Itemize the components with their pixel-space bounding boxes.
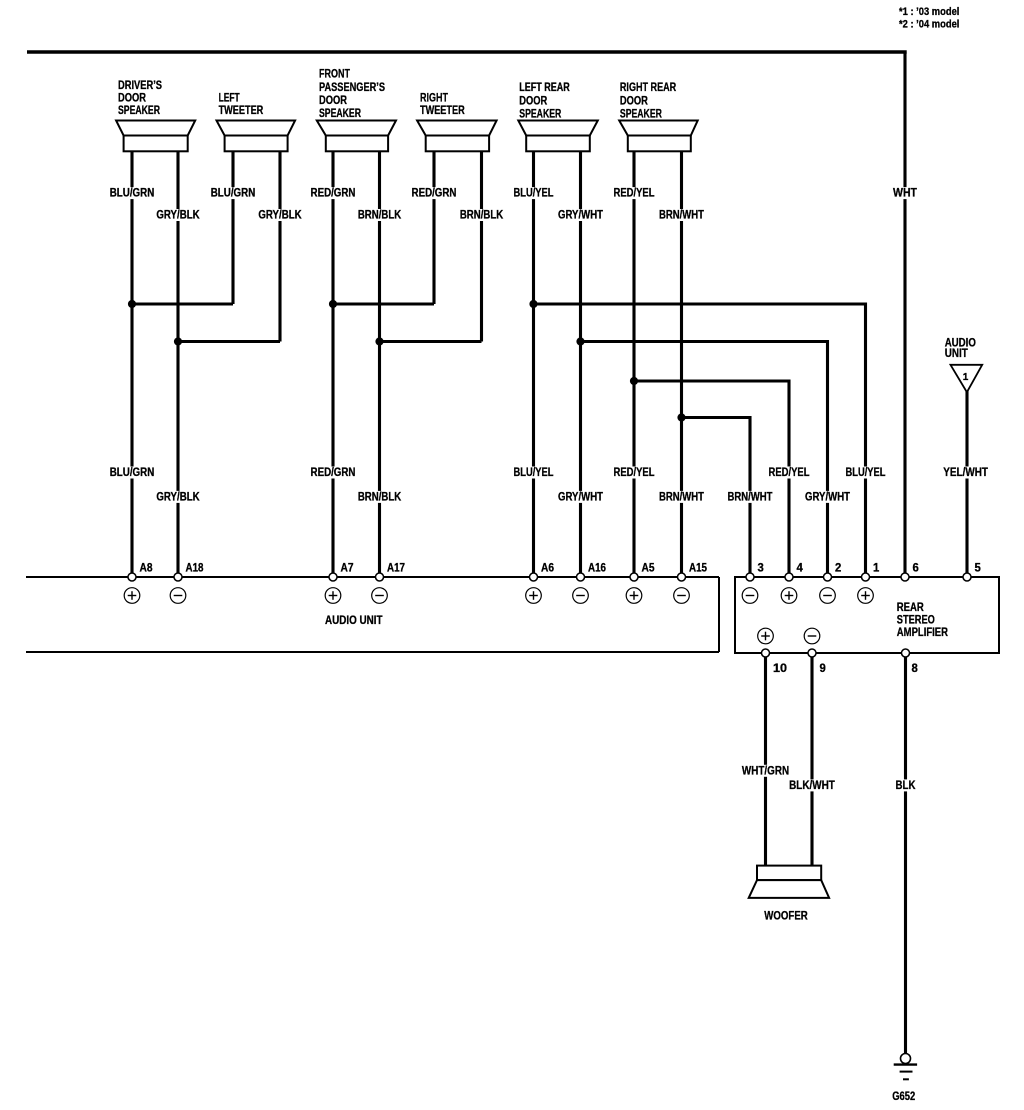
svg-text:A16: A16 <box>588 563 606 575</box>
svg-text:1: 1 <box>963 372 969 383</box>
svg-text:BLU/GRN: BLU/GRN <box>211 186 256 200</box>
svg-text:DOOR: DOOR <box>319 93 347 107</box>
svg-text:BLK/WHT: BLK/WHT <box>789 778 835 792</box>
svg-text:A8: A8 <box>140 563 154 575</box>
svg-text:6: 6 <box>913 563 919 575</box>
svg-text:WHT/GRN: WHT/GRN <box>742 763 789 777</box>
svg-text:BLU/YEL: BLU/YEL <box>514 186 554 200</box>
svg-text:GRY/WHT: GRY/WHT <box>558 208 604 222</box>
svg-text:4: 4 <box>797 563 804 575</box>
svg-text:BRN/BLK: BRN/BLK <box>358 489 402 503</box>
svg-text:BLU/GRN: BLU/GRN <box>110 465 155 479</box>
svg-text:DOOR: DOOR <box>519 94 547 108</box>
svg-text:RED/GRN: RED/GRN <box>311 186 356 200</box>
svg-text:TWEETER: TWEETER <box>420 103 465 117</box>
svg-text:SPEAKER: SPEAKER <box>118 103 160 117</box>
svg-text:LEFT REAR: LEFT REAR <box>519 80 570 94</box>
svg-text:WHT: WHT <box>893 186 918 200</box>
svg-text:BRN/WHT: BRN/WHT <box>728 489 774 503</box>
svg-text:RIGHT REAR: RIGHT REAR <box>620 80 677 94</box>
svg-text:A15: A15 <box>689 563 708 575</box>
svg-text:BRN/WHT: BRN/WHT <box>659 489 705 503</box>
svg-text:A17: A17 <box>387 563 405 575</box>
svg-text:5: 5 <box>975 563 982 575</box>
svg-text:BLU/YEL: BLU/YEL <box>514 465 554 479</box>
svg-text:BRN/WHT: BRN/WHT <box>659 208 705 222</box>
svg-text:A6: A6 <box>541 563 554 575</box>
svg-text:DOOR: DOOR <box>620 94 648 108</box>
svg-text:YEL/WHT: YEL/WHT <box>943 465 988 479</box>
svg-text:A5: A5 <box>642 563 656 575</box>
svg-text:RED/YEL: RED/YEL <box>614 186 655 200</box>
svg-text:FRONT: FRONT <box>319 67 351 81</box>
svg-text:BLU/YEL: BLU/YEL <box>846 465 886 479</box>
svg-text:GRY/BLK: GRY/BLK <box>156 208 200 222</box>
svg-text:2: 2 <box>835 563 841 575</box>
svg-text:G652: G652 <box>892 1089 915 1103</box>
svg-text:BRN/BLK: BRN/BLK <box>460 208 504 222</box>
svg-text:3: 3 <box>758 563 764 575</box>
svg-text:8: 8 <box>912 663 919 675</box>
svg-text:A7: A7 <box>341 563 354 575</box>
svg-text:GRY/BLK: GRY/BLK <box>156 489 200 503</box>
svg-text:GRY/WHT: GRY/WHT <box>558 489 604 503</box>
svg-text:*2 : ’04 model: *2 : ’04 model <box>899 19 959 31</box>
svg-text:TWEETER: TWEETER <box>219 103 264 117</box>
svg-text:RED/YEL: RED/YEL <box>769 465 810 479</box>
svg-text:BRN/BLK: BRN/BLK <box>358 208 402 222</box>
svg-text:RED/GRN: RED/GRN <box>311 465 356 479</box>
svg-text:GRY/WHT: GRY/WHT <box>805 489 851 503</box>
svg-text:SPEAKER: SPEAKER <box>519 107 561 121</box>
svg-text:RED/GRN: RED/GRN <box>412 186 457 200</box>
svg-text:BLK: BLK <box>896 778 916 792</box>
svg-text:RED/YEL: RED/YEL <box>614 465 655 479</box>
svg-text:10: 10 <box>773 663 787 675</box>
svg-text:AMPLIFIER: AMPLIFIER <box>897 625 948 639</box>
svg-text:A18: A18 <box>186 563 205 575</box>
svg-text:*1 : ’03 model: *1 : ’03 model <box>899 6 959 18</box>
svg-text:SPEAKER: SPEAKER <box>319 106 361 120</box>
svg-text:1: 1 <box>873 563 880 575</box>
svg-text:SPEAKER: SPEAKER <box>620 107 662 121</box>
svg-text:BLU/GRN: BLU/GRN <box>110 186 155 200</box>
svg-text:9: 9 <box>820 663 826 675</box>
svg-text:UNIT: UNIT <box>945 346 969 360</box>
svg-text:GRY/BLK: GRY/BLK <box>258 208 302 222</box>
svg-text:AUDIO UNIT: AUDIO UNIT <box>325 613 383 627</box>
svg-text:WOOFER: WOOFER <box>764 908 808 922</box>
svg-text:PASSENGER’S: PASSENGER’S <box>319 80 385 94</box>
